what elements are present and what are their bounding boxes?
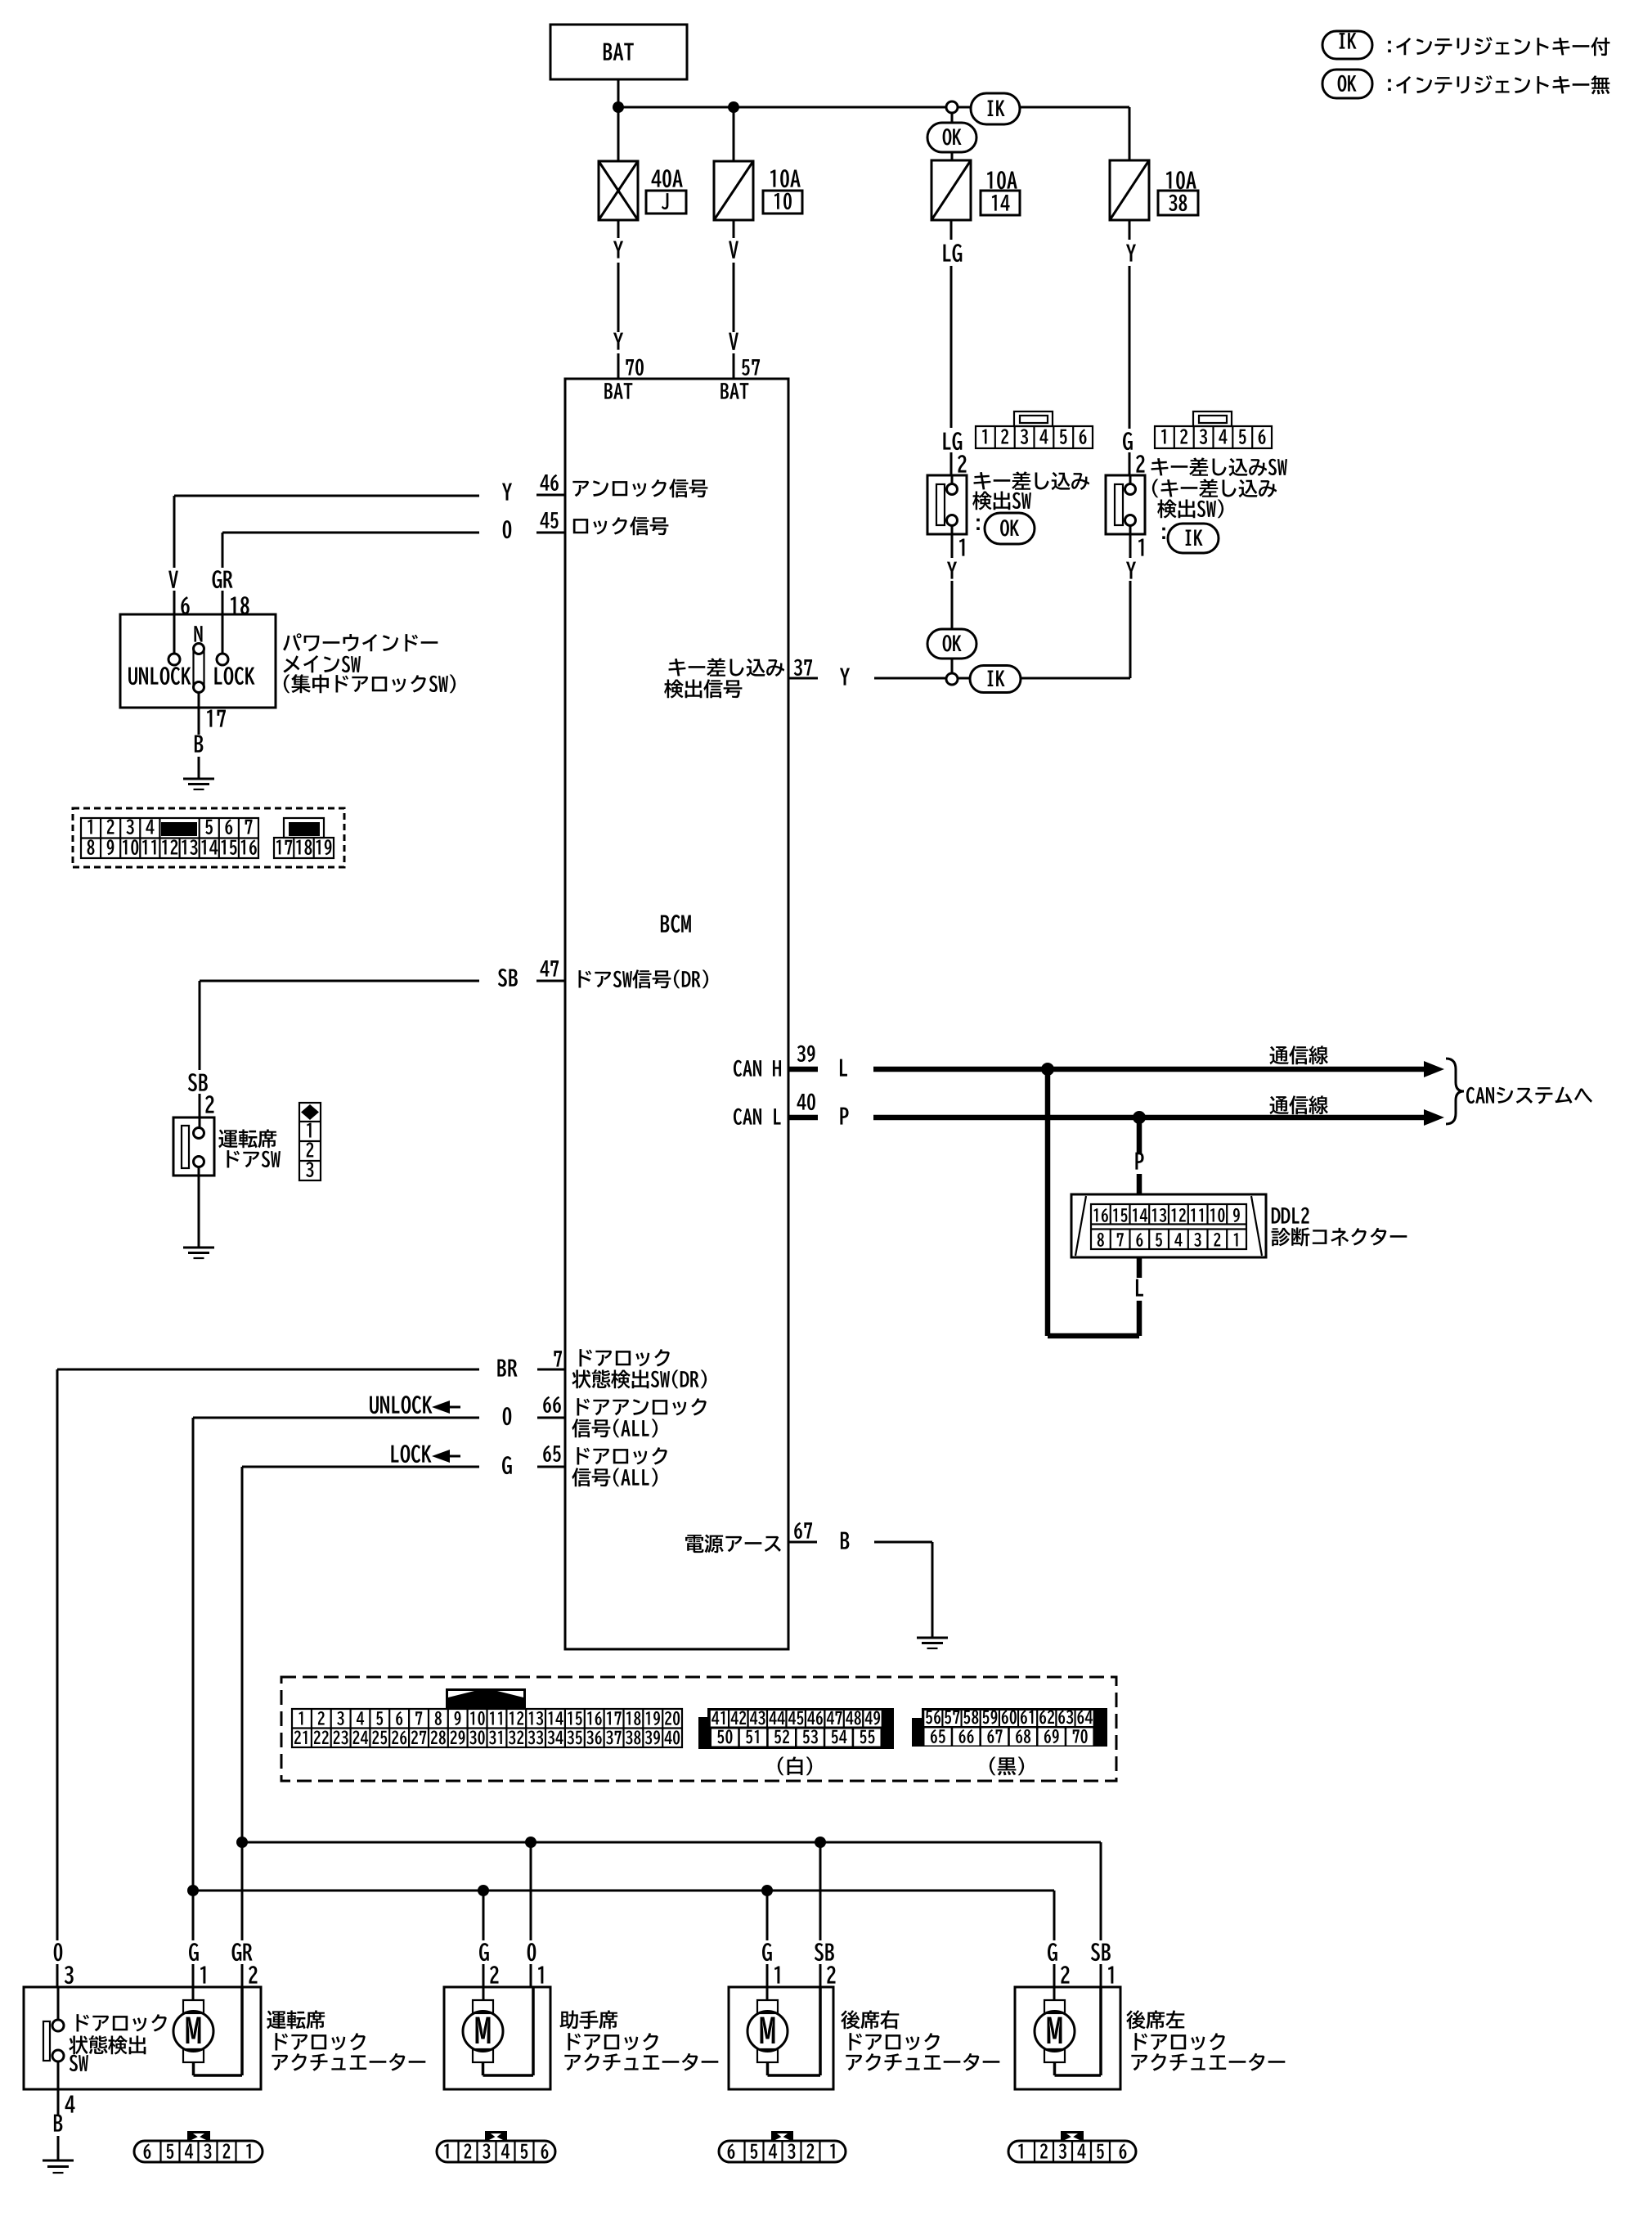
ground driver door SW — [183, 1248, 214, 1258]
motor passenger actuator — [463, 2000, 503, 2062]
BCM pin 7 door lock state SW — [497, 1349, 707, 1388]
wire label G rear left pin2 — [1048, 1943, 1069, 1987]
wire LG below fuse 14 — [943, 220, 962, 475]
wire rear right unlock drop — [819, 1842, 822, 1940]
passenger door lock actuator box — [444, 1987, 550, 2089]
connector 6pin driver actuator — [134, 2131, 263, 2162]
battery BAT — [550, 25, 687, 79]
BCM pin 45 lock signal — [503, 512, 669, 538]
lock bus wire upper — [242, 1841, 1101, 1844]
wire label G driver pin1 — [189, 1943, 205, 1987]
driver door SW — [173, 1117, 214, 1176]
BCM label — [661, 915, 691, 933]
wire rear left motor top — [1053, 1987, 1056, 2000]
BCM pin 39 CAN H — [734, 1045, 818, 1077]
wire rear right lock drop — [766, 1891, 769, 1940]
CAN L arrowhead — [1424, 1109, 1444, 1126]
label rear left door lock actuator — [1126, 2010, 1285, 2070]
key insert detection switch (OK) left — [927, 455, 967, 558]
wire pin 67 to ground — [874, 1542, 932, 1638]
CAN H drop wire to DDL2 loop — [1045, 1069, 1051, 1336]
label white connector — [778, 1756, 812, 1775]
junction dot fuse 10 branch — [728, 101, 739, 113]
door lock state detection SW contacts — [43, 1987, 64, 2089]
wire pin 37 Y — [840, 668, 946, 686]
IK oval on key detect line — [958, 666, 1130, 693]
wire label O passenger pin1 — [527, 1943, 544, 1987]
wire driver door SW to ground — [198, 1176, 200, 1248]
open circle on key detect signal line — [951, 659, 954, 673]
wire rear left unlock drop — [1100, 1842, 1102, 1940]
label key insert detection SW left — [972, 471, 1089, 530]
power window switch internals — [128, 614, 255, 693]
BCM pin 67 power ground — [685, 1522, 849, 1553]
IK oval on top bus — [971, 93, 1020, 124]
BCM pin 40 CAN L — [734, 1094, 818, 1125]
connector 19pin power window switch — [73, 808, 344, 867]
motor rear left actuator — [1035, 2000, 1075, 2062]
BCM connector black 56-70 — [912, 1708, 1107, 1747]
BCM pin 46 unlock signal — [502, 474, 707, 501]
wire Y below left key switch — [947, 562, 957, 629]
wire driver motor top — [192, 1987, 195, 2000]
legend OK symbol — [1322, 70, 1372, 98]
junction dot unlock bus rear right — [761, 1885, 773, 1896]
wire pin4 B to ground driver — [54, 2089, 75, 2160]
UNLOCK arrow — [370, 1396, 460, 1414]
driver door lock actuator box — [24, 1987, 261, 2089]
junction dot CAN L — [1133, 1111, 1146, 1124]
open circle junction OK/IK branch — [951, 107, 954, 123]
junction dot unlock bus driver — [187, 1885, 199, 1896]
LOCK arrow — [391, 1445, 460, 1463]
fuse 10 10A — [714, 107, 802, 220]
pin 70 label — [626, 359, 644, 375]
label CAN H communication line — [1269, 1045, 1327, 1064]
label rear right door lock actuator — [841, 2010, 999, 2070]
label door lock state detection SW — [69, 2014, 166, 2071]
connector 3pin driver door SW — [299, 1103, 321, 1180]
CAN L wire P — [840, 1108, 1427, 1125]
wire pin 47 to driver door SW — [200, 981, 479, 1070]
junction dot unlock bus passenger — [478, 1885, 489, 1896]
brace to CAN system — [1446, 1059, 1464, 1124]
wire V below fuse 10 — [729, 220, 738, 379]
label black connector — [990, 1756, 1024, 1775]
wire pin 45 to power window switch — [222, 533, 479, 568]
wire passenger motor loop — [483, 1987, 534, 2075]
label key insert SW right — [1151, 457, 1287, 539]
ground power window switch — [183, 779, 214, 789]
BCM pin 37 key insert detection signal — [664, 658, 818, 698]
wire BAT to bus — [617, 79, 620, 107]
motor driver actuator — [173, 2000, 213, 2062]
BCM pin 65 door lock signal — [502, 1445, 667, 1487]
wire passenger unlock drop — [530, 1842, 532, 1940]
connector 6pin left key switch — [976, 411, 1093, 448]
open circle junction key detect — [946, 673, 958, 685]
junction dot fuse J branch — [613, 101, 624, 113]
wire Y below right key switch — [1126, 562, 1136, 678]
wire label GR driver pin2 — [232, 1943, 258, 1987]
wire rear right motor top — [766, 1987, 769, 2000]
label to CAN system — [1466, 1087, 1592, 1104]
fuse 14 10A — [931, 152, 1020, 220]
wire label SB rear right pin2 — [815, 1943, 836, 1987]
OK oval on key detect line — [927, 629, 976, 659]
fuse J 40A — [599, 107, 686, 220]
legend OK text — [1388, 75, 1609, 94]
BCM pin 47 door SW signal — [498, 960, 708, 988]
connector 6pin passenger actuator — [437, 2141, 555, 2162]
wire L below DDL2 — [1136, 1257, 1143, 1336]
OK oval label left switch — [985, 513, 1035, 544]
wire Y below fuse 38 — [1123, 220, 1136, 475]
BCM connector dashed box — [281, 1677, 1116, 1781]
bus wire from BAT junction to fuse 38 branch — [618, 106, 1129, 109]
connector 6pin rear left actuator — [1008, 2131, 1136, 2162]
junction dot lock bus passenger — [525, 1837, 536, 1848]
junction dot CAN H — [1041, 1063, 1054, 1076]
BCM connector 40pin tab — [446, 1688, 526, 1709]
wire label SB rear left pin1 — [1091, 1943, 1114, 1987]
wire pin 65 to lock bus — [242, 1467, 479, 1940]
BCM connector 40pin — [292, 1709, 682, 1747]
CAN H arrowhead — [1424, 1061, 1444, 1077]
BCM connector white 41-55 — [698, 1708, 894, 1749]
wire passenger motor top — [483, 1987, 485, 2000]
wire pin17 B to ground — [195, 693, 226, 780]
wire Y below fuse J — [613, 220, 623, 379]
CAN H wire L — [840, 1059, 1427, 1077]
DDL2 loop bottom wire — [1048, 1333, 1139, 1339]
connector 6pin right key switch — [1155, 411, 1272, 448]
OK oval on fuse 14 branch — [927, 123, 976, 152]
wire rear right motor loop — [768, 1987, 821, 2075]
rear left door lock actuator box — [1015, 1987, 1120, 2089]
rear right door lock actuator box — [729, 1987, 833, 2089]
wire passenger lock drop — [483, 1891, 485, 1940]
BCM pin 70 BAT — [604, 383, 632, 399]
label passenger door lock actuator — [559, 2010, 718, 2070]
wire label O driver state SW pin3 — [54, 1943, 74, 1987]
wire label G passenger pin2 — [479, 1943, 498, 1987]
DDL2 diagnostic connector — [1071, 1194, 1266, 1257]
connector 6pin rear right actuator — [719, 2131, 846, 2162]
wire label G rear right pin1 — [762, 1943, 779, 1987]
power window main switch box — [120, 614, 276, 708]
unlock bus wire lower — [193, 1890, 1054, 1892]
label CAN L communication line — [1269, 1095, 1327, 1114]
wire rear left lock drop — [1053, 1891, 1056, 1940]
tab passenger connector — [485, 2131, 507, 2142]
label power window main switch — [283, 633, 456, 693]
BCM pin 66 door unlock signal — [503, 1396, 707, 1438]
wire label GR pin18 — [213, 570, 249, 614]
pin 57 label — [742, 359, 760, 375]
wire label SB driver door SW — [188, 1073, 214, 1117]
label driver door lock actuator — [267, 2010, 425, 2070]
CAN L drop wire P to DDL2 — [1135, 1117, 1143, 1194]
ground BCM power — [917, 1638, 948, 1648]
wire label V pin6 — [168, 571, 190, 615]
BCM pin 57 BAT — [721, 383, 748, 399]
legend IK text — [1388, 37, 1609, 56]
wire rear left motor loop — [1055, 1987, 1102, 2075]
fuse 38 10A — [1110, 107, 1198, 220]
label driver door SW — [218, 1129, 281, 1167]
junction dot lock bus driver — [236, 1837, 248, 1848]
BCM box — [565, 379, 788, 1649]
label DDL2 — [1272, 1207, 1407, 1247]
motor rear right actuator — [747, 2000, 788, 2062]
ground driver door lock state SW — [43, 2160, 74, 2173]
junction dot lock bus rear right — [815, 1837, 826, 1848]
IK oval label right switch — [1168, 524, 1219, 553]
wire pin 46 to power window switch — [174, 496, 479, 568]
wire pin 7 to door lock state SW — [57, 1369, 479, 1940]
wire pin 66 to unlock bus — [193, 1418, 479, 1940]
legend IK symbol — [1322, 31, 1372, 59]
key insert switch (IK) right — [1106, 455, 1145, 558]
wire driver motor loop — [194, 1987, 243, 2075]
open circle node — [946, 101, 958, 113]
